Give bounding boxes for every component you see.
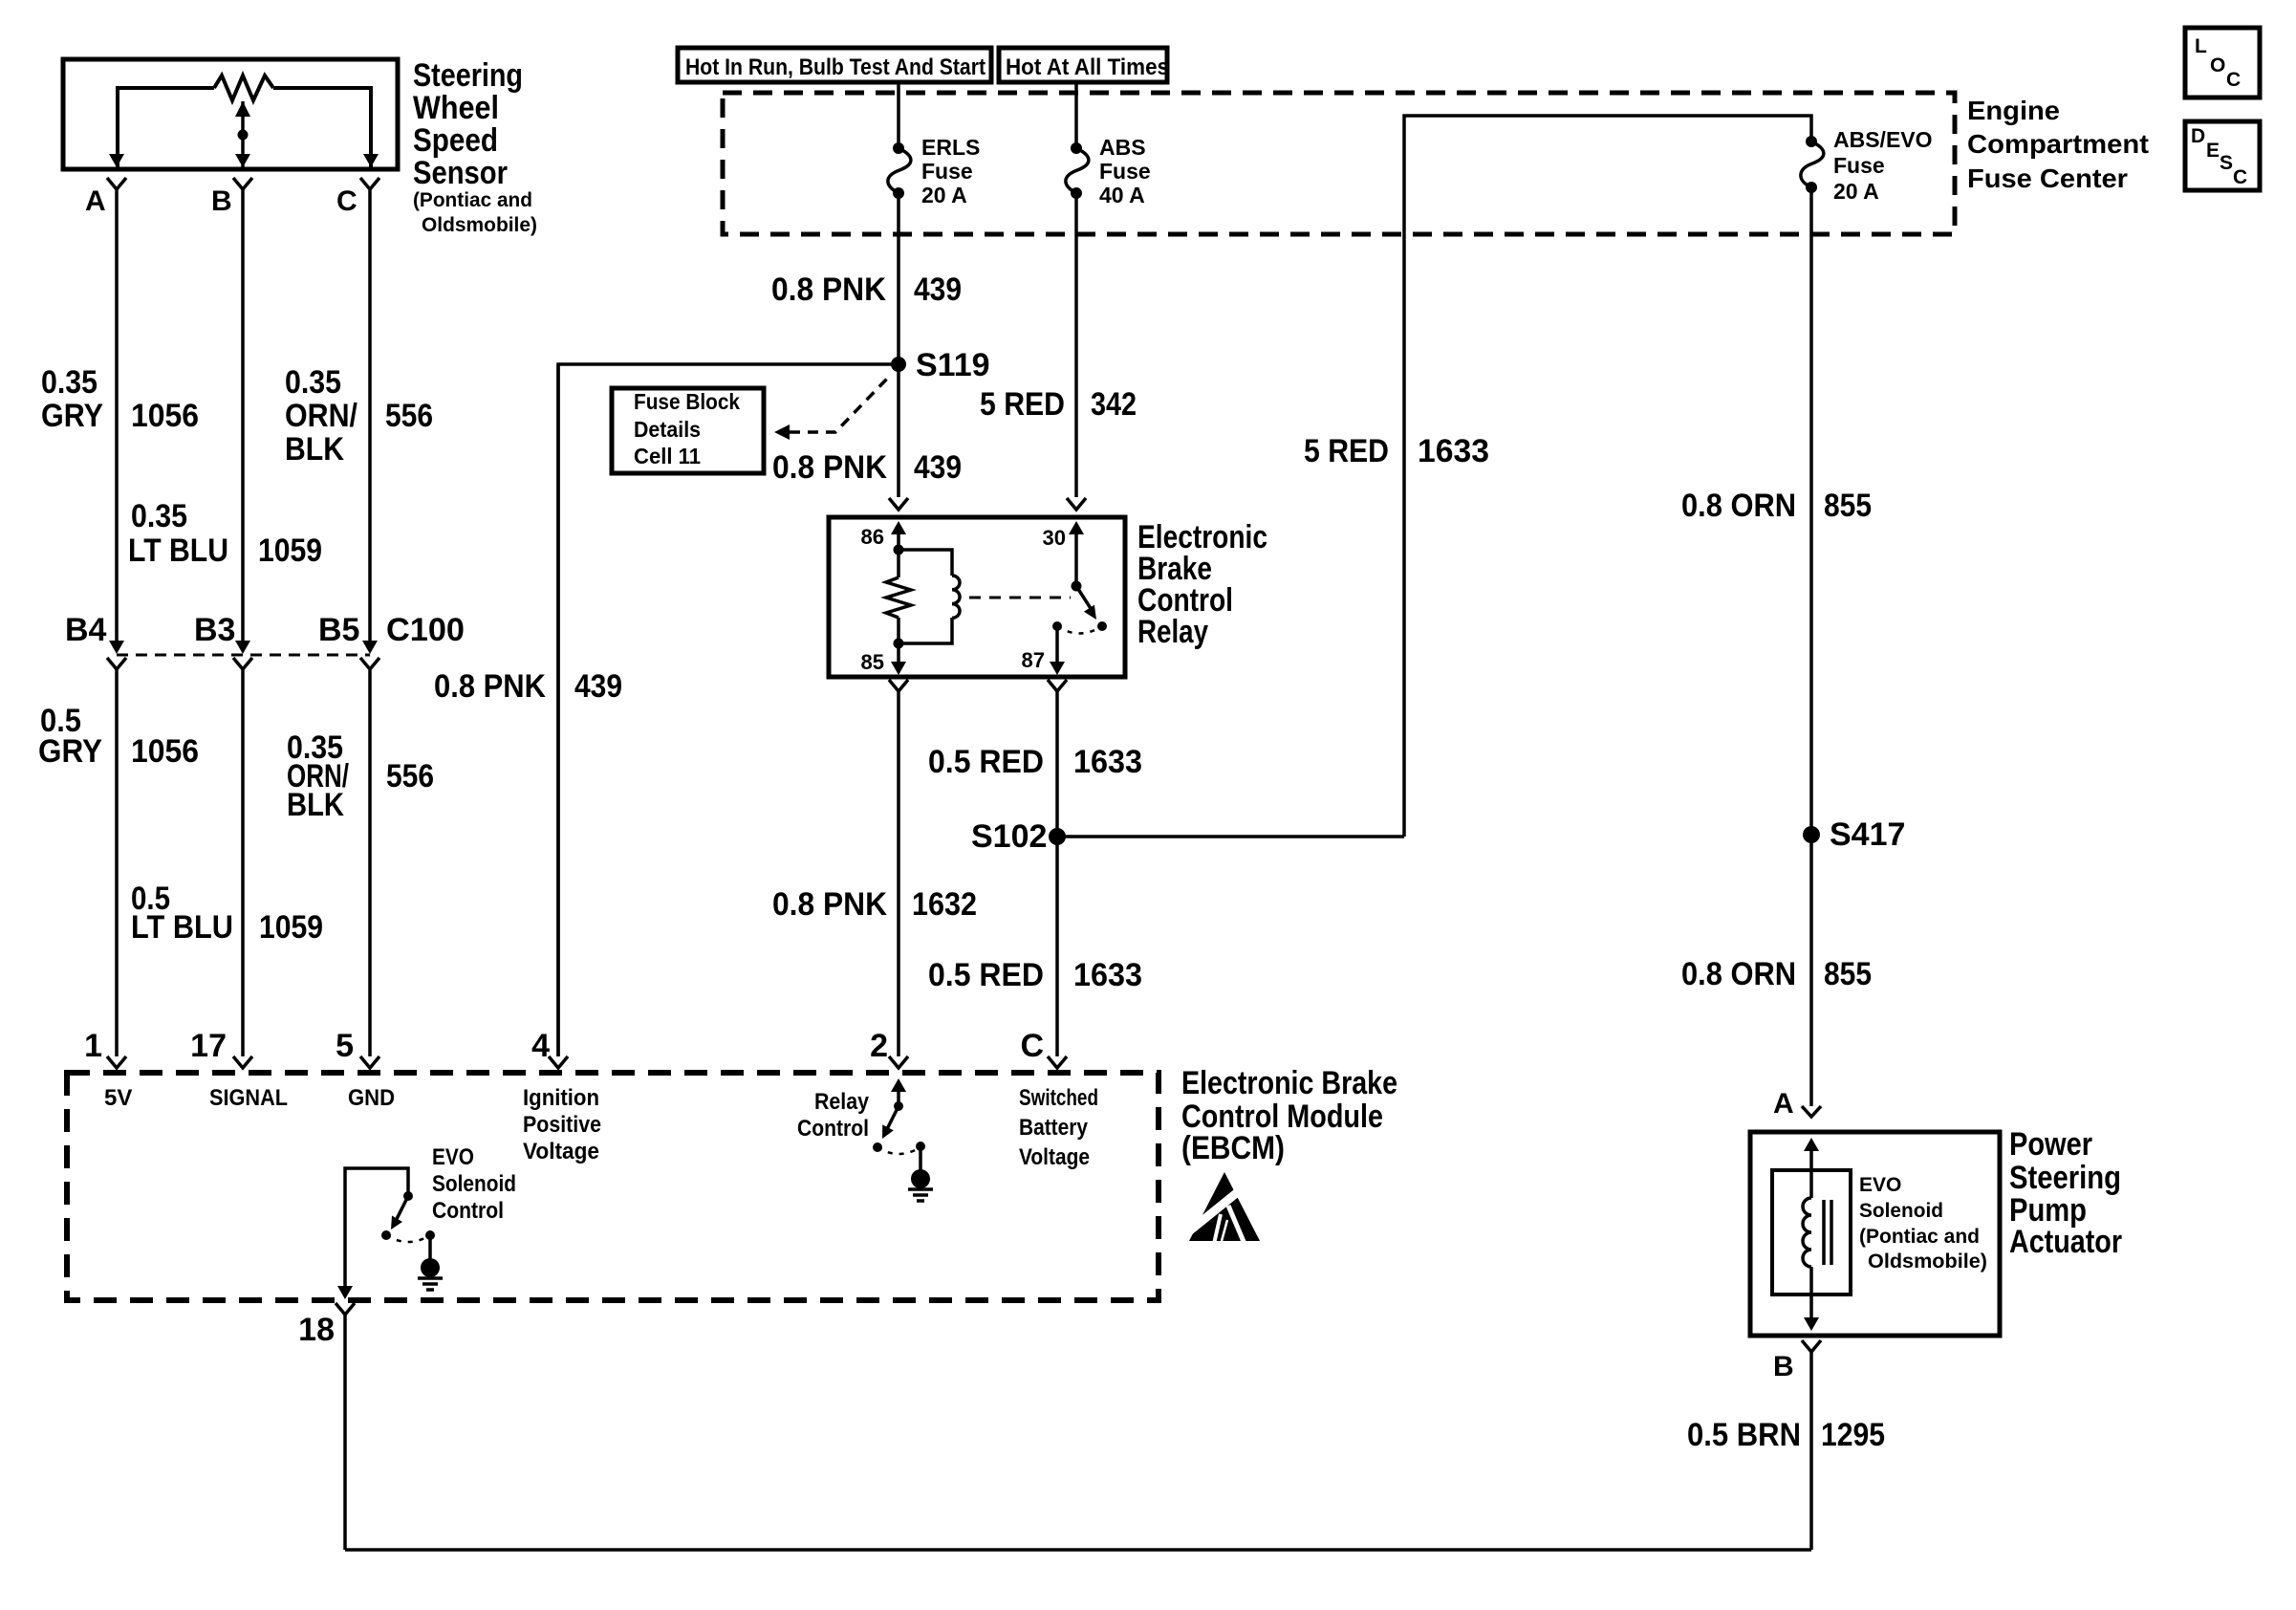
svg-text:439: 439 <box>574 668 622 705</box>
svg-text:17: 17 <box>190 1028 227 1064</box>
svg-text:1295: 1295 <box>1821 1417 1885 1453</box>
svg-text:Speed: Speed <box>413 122 498 159</box>
svg-text:EVO: EVO <box>432 1144 474 1170</box>
svg-text:(EBCM): (EBCM) <box>1181 1130 1285 1166</box>
svg-text:Battery: Battery <box>1019 1115 1089 1141</box>
svg-text:SIGNAL: SIGNAL <box>209 1085 288 1111</box>
svg-text:ABS: ABS <box>1099 135 1146 160</box>
svg-text:0.35: 0.35 <box>285 364 341 401</box>
svg-text:40 A: 40 A <box>1099 183 1145 207</box>
svg-text:0.8 PNK: 0.8 PNK <box>434 668 546 705</box>
svg-text:GRY: GRY <box>41 398 103 434</box>
svg-text:0.8 PNK: 0.8 PNK <box>772 449 887 486</box>
svg-text:Electronic Brake: Electronic Brake <box>1181 1065 1397 1101</box>
svg-text:5V: 5V <box>104 1085 132 1111</box>
svg-text:ORN/: ORN/ <box>285 398 357 434</box>
svg-text:EVO: EVO <box>1859 1174 1901 1196</box>
svg-text:1056: 1056 <box>131 398 199 434</box>
svg-text:1: 1 <box>84 1028 102 1064</box>
svg-text:Control: Control <box>797 1116 869 1142</box>
svg-text:556: 556 <box>386 758 434 794</box>
svg-text:Oldsmobile): Oldsmobile) <box>422 214 537 236</box>
svg-text:B: B <box>1773 1351 1794 1382</box>
svg-text:1632: 1632 <box>912 886 977 923</box>
svg-text:B5: B5 <box>318 612 359 648</box>
svg-text:Fuse: Fuse <box>1099 159 1151 184</box>
svg-text:556: 556 <box>385 398 433 434</box>
svg-text:BLK: BLK <box>285 431 344 468</box>
svg-text:Sensor: Sensor <box>413 155 508 191</box>
svg-text:Fuse: Fuse <box>921 159 973 184</box>
svg-text:0.35: 0.35 <box>131 498 187 534</box>
svg-text:LT BLU: LT BLU <box>128 533 228 569</box>
svg-text:Fuse: Fuse <box>1833 153 1885 178</box>
svg-text:0.8 ORN: 0.8 ORN <box>1681 956 1796 992</box>
svg-text:0.5 RED: 0.5 RED <box>928 744 1044 780</box>
svg-text:Hot In Run, Bulb Test And Star: Hot In Run, Bulb Test And Start <box>685 54 986 80</box>
svg-text:LT BLU: LT BLU <box>131 909 233 946</box>
svg-text:Solenoid: Solenoid <box>1859 1200 1943 1222</box>
svg-text:Cell 11: Cell 11 <box>634 444 701 468</box>
svg-text:Fuse Block: Fuse Block <box>634 389 740 414</box>
svg-text:87: 87 <box>1022 648 1045 672</box>
svg-text:ABS/EVO: ABS/EVO <box>1833 127 1933 152</box>
svg-text:Power: Power <box>2009 1126 2092 1163</box>
svg-text:2: 2 <box>870 1028 888 1064</box>
svg-text:Steering: Steering <box>2009 1160 2121 1196</box>
svg-text:Actuator: Actuator <box>2009 1224 2122 1260</box>
svg-text:O: O <box>2210 54 2225 76</box>
svg-text:E: E <box>2206 140 2220 162</box>
svg-text:(Pontiac and: (Pontiac and <box>1859 1226 1980 1248</box>
svg-text:1059: 1059 <box>259 909 323 946</box>
svg-text:Ignition: Ignition <box>523 1085 599 1111</box>
svg-text:86: 86 <box>861 525 884 549</box>
svg-text:C: C <box>2226 69 2241 91</box>
svg-text:0.5 RED: 0.5 RED <box>928 957 1044 993</box>
svg-text:Voltage: Voltage <box>523 1139 599 1164</box>
svg-text:1633: 1633 <box>1073 957 1142 993</box>
svg-text:855: 855 <box>1824 956 1872 992</box>
svg-text:85: 85 <box>861 650 884 674</box>
svg-text:Compartment: Compartment <box>1967 129 2149 159</box>
svg-text:0.35: 0.35 <box>41 364 97 401</box>
svg-text:0.8 PNK: 0.8 PNK <box>771 272 886 308</box>
svg-text:0.8 PNK: 0.8 PNK <box>772 886 887 923</box>
svg-text:GRY: GRY <box>38 733 102 770</box>
svg-text:Switched: Switched <box>1019 1085 1098 1111</box>
svg-text:5 RED: 5 RED <box>1304 433 1389 469</box>
svg-text:B: B <box>211 185 232 217</box>
svg-text:L: L <box>2195 35 2207 57</box>
svg-text:Hot At All Times: Hot At All Times <box>1006 54 1169 80</box>
svg-text:342: 342 <box>1091 386 1137 423</box>
svg-text:C: C <box>336 185 357 217</box>
svg-text:D: D <box>2191 125 2205 147</box>
svg-text:C100: C100 <box>386 612 465 648</box>
svg-text:1059: 1059 <box>258 533 322 569</box>
svg-text:5: 5 <box>336 1028 354 1064</box>
svg-text:4: 4 <box>531 1028 550 1064</box>
svg-text:Engine: Engine <box>1967 96 2060 125</box>
svg-text:1056: 1056 <box>131 733 199 770</box>
svg-text:S102: S102 <box>971 818 1047 855</box>
svg-text:B4: B4 <box>65 612 107 648</box>
svg-text:S: S <box>2220 152 2233 174</box>
svg-text:Details: Details <box>634 417 701 442</box>
svg-text:B3: B3 <box>194 612 235 648</box>
svg-text:439: 439 <box>914 449 962 486</box>
svg-text:GND: GND <box>348 1085 395 1111</box>
svg-text:Steering: Steering <box>413 57 523 94</box>
svg-text:ERLS: ERLS <box>921 135 980 160</box>
svg-text:C: C <box>1020 1028 1044 1064</box>
svg-text:0.8 ORN: 0.8 ORN <box>1681 488 1796 524</box>
svg-text:5 RED: 5 RED <box>980 386 1065 423</box>
svg-text:Oldsmobile): Oldsmobile) <box>1868 1251 1987 1273</box>
svg-text:Voltage: Voltage <box>1019 1144 1090 1170</box>
svg-text:A: A <box>85 185 106 217</box>
svg-text:439: 439 <box>914 272 962 308</box>
svg-text:Solenoid: Solenoid <box>432 1171 516 1197</box>
svg-text:Control: Control <box>432 1198 504 1224</box>
svg-text:S417: S417 <box>1830 816 1905 853</box>
svg-text:18: 18 <box>298 1312 335 1348</box>
svg-text:(Pontiac and: (Pontiac and <box>413 189 532 211</box>
svg-text:Relay: Relay <box>1137 614 1208 650</box>
svg-text:30: 30 <box>1043 526 1066 550</box>
svg-text:BLK: BLK <box>287 787 344 823</box>
svg-text:1633: 1633 <box>1418 433 1489 469</box>
svg-text:855: 855 <box>1824 488 1872 524</box>
svg-text:Wheel: Wheel <box>413 90 499 126</box>
svg-text:20 A: 20 A <box>921 183 967 207</box>
svg-text:A: A <box>1773 1088 1794 1120</box>
svg-text:20 A: 20 A <box>1833 179 1879 204</box>
svg-text:Positive: Positive <box>523 1112 601 1138</box>
svg-text:Relay: Relay <box>814 1089 870 1115</box>
svg-text:1633: 1633 <box>1073 744 1142 780</box>
svg-text:Fuse Center: Fuse Center <box>1967 163 2128 193</box>
svg-text:S119: S119 <box>916 347 990 383</box>
svg-text:0.5 BRN: 0.5 BRN <box>1687 1417 1801 1453</box>
svg-text:C: C <box>2233 166 2247 188</box>
